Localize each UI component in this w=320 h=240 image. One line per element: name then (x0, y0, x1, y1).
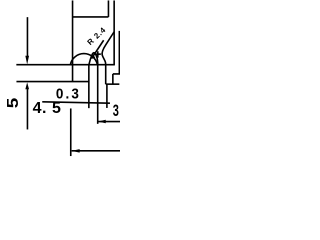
dimension 5 lower line (26, 88, 28, 129)
top horizontal H0 (73, 16, 109, 18)
svg-text:5: 5 (3, 97, 21, 108)
center mark horizontal (95, 53, 101, 55)
right L profile V10 H4 (113, 31, 120, 74)
dimension 3 left arrow (98, 120, 106, 124)
vertical V9 (106, 84, 108, 108)
bottom dimension left arrow (72, 149, 80, 153)
inner dome profile (89, 53, 98, 65)
dimension 3 line (98, 121, 121, 123)
dimension 5 down arrow (25, 56, 29, 65)
vertical V7 (105, 65, 107, 85)
extension line V4 (88, 65, 90, 109)
hook J-curve (102, 32, 114, 65)
top right vertical V2 (107, 0, 109, 17)
radius leader R2.4 (92, 40, 104, 58)
extension line V6 (97, 65, 99, 124)
dimension 5 upper line (26, 17, 28, 57)
right vertical V3 (113, 0, 115, 64)
big outer arc (70, 54, 97, 65)
extension line x=70.3 (70, 108, 72, 156)
left wall vertical V1 (72, 0, 74, 81)
bottom dimension line H5 (72, 150, 121, 152)
main horizontal line H1 (16, 64, 115, 66)
vertical V11 (112, 74, 114, 84)
dimension 5 up arrow (25, 82, 29, 89)
box bottom H3 (106, 83, 120, 85)
svg-text:3: 3 (113, 101, 119, 120)
center mark vertical (97, 51, 99, 57)
dimension 0.3 leader line B (42, 102, 110, 103)
second horizontal line H2 (16, 81, 89, 83)
radius leader arrowhead (91, 55, 95, 59)
